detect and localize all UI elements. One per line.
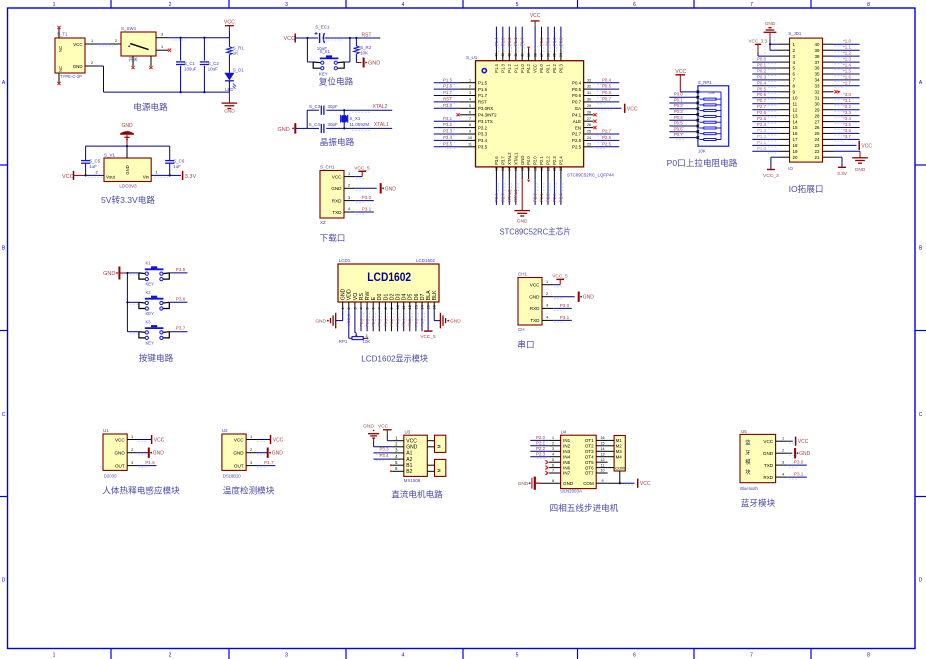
svg-text:36: 36 <box>814 66 820 71</box>
svg-text:VCC_5: VCC_5 <box>354 165 370 171</box>
svg-text:S_K1: S_K1 <box>320 49 331 54</box>
svg-text:29: 29 <box>587 104 591 108</box>
svg-text:P0.7: P0.7 <box>572 100 582 105</box>
svg-text:RP1: RP1 <box>339 339 348 344</box>
svg-text:VCC: VCC <box>273 438 284 444</box>
svg-text:28: 28 <box>814 113 820 118</box>
svg-text:D: D <box>919 578 923 584</box>
svg-text:14: 14 <box>508 167 512 171</box>
svg-text:牙: 牙 <box>745 449 751 456</box>
svg-text:IN2: IN2 <box>563 444 571 449</box>
svg-text:P0.6: P0.6 <box>414 319 418 327</box>
svg-text:下载口: 下载口 <box>320 232 346 243</box>
svg-text:P0.4: P0.4 <box>674 115 684 120</box>
svg-text:Vin: Vin <box>143 175 150 180</box>
svg-text:P0.3: P0.3 <box>757 74 767 79</box>
svg-text:19: 19 <box>540 167 544 171</box>
svg-text:P2.7: P2.7 <box>602 129 612 134</box>
svg-text:P2.1: P2.1 <box>536 441 546 446</box>
svg-text:RS: RS <box>359 292 365 300</box>
svg-text:P0.4: P0.4 <box>602 77 612 82</box>
svg-text:P0.2: P0.2 <box>674 103 684 108</box>
svg-text:GND: GND <box>331 186 342 191</box>
svg-text:2: 2 <box>91 61 93 65</box>
svg-text:VCC: VCC <box>675 69 686 75</box>
svg-text:B2: B2 <box>406 469 412 475</box>
svg-text:12: 12 <box>408 305 412 309</box>
svg-text:VCC_3: VCC_3 <box>763 173 779 179</box>
svg-text:*1.7: *1.7 <box>843 80 851 85</box>
svg-text:S_V1: S_V1 <box>104 153 116 158</box>
svg-text:M: M <box>436 468 441 472</box>
svg-text:21: 21 <box>553 167 557 171</box>
svg-text:P2.5: P2.5 <box>366 319 370 327</box>
svg-text:P0.2: P0.2 <box>552 64 557 73</box>
svg-text:COM: COM <box>583 481 594 486</box>
svg-text:3: 3 <box>546 304 548 308</box>
svg-text:P2.6: P2.6 <box>757 110 767 115</box>
svg-text:M4: M4 <box>616 454 623 459</box>
svg-text:3: 3 <box>782 460 784 464</box>
svg-text:GND: GND <box>406 445 418 451</box>
svg-text:3: 3 <box>285 2 288 8</box>
svg-text:复位电路: 复位电路 <box>319 76 354 87</box>
svg-text:GND: GND <box>125 165 130 174</box>
svg-text:S_JD1: S_JD1 <box>788 31 802 36</box>
svg-text:GND: GND <box>233 451 244 456</box>
svg-text:P2.0: P2.0 <box>536 435 546 440</box>
svg-text:1: 1 <box>91 39 93 43</box>
svg-text:P2.7: P2.7 <box>572 132 582 137</box>
svg-text:P4.2: P4.2 <box>526 64 531 73</box>
svg-text:GND: GND <box>450 319 461 325</box>
svg-text:GND: GND <box>73 64 83 69</box>
svg-text:16: 16 <box>793 131 799 136</box>
svg-text:4: 4 <box>348 207 350 211</box>
svg-text:*3.6: *3.6 <box>843 128 851 133</box>
svg-text:S_R2: S_R2 <box>360 45 372 50</box>
svg-text:STC89C52RC主芯片: STC89C52RC主芯片 <box>500 226 572 237</box>
svg-text:*1.2: *1.2 <box>843 51 851 56</box>
svg-text:26: 26 <box>587 123 591 127</box>
svg-text:模: 模 <box>745 458 751 466</box>
svg-text:VCC: VCC <box>530 283 540 288</box>
svg-text:S_C2: S_C2 <box>208 61 220 66</box>
svg-text:11: 11 <box>601 463 605 467</box>
svg-text:P2.6: P2.6 <box>602 135 612 140</box>
svg-text:P2.7: P2.7 <box>372 319 376 327</box>
svg-text:P0口上拉电阻电路: P0口上拉电阻电路 <box>667 157 738 168</box>
svg-text:P0.1: P0.1 <box>674 98 684 103</box>
svg-text:GND: GND <box>363 424 374 430</box>
svg-text:4: 4 <box>782 472 784 476</box>
svg-text:1: 1 <box>53 2 56 8</box>
svg-text:VCC_3.3: VCC_3.3 <box>748 38 767 43</box>
svg-text:P1.7: P1.7 <box>443 90 453 95</box>
svg-text:GND: GND <box>563 481 574 486</box>
svg-text:GND: GND <box>583 295 595 301</box>
svg-text:VCC: VCC <box>234 437 244 442</box>
svg-text:3: 3 <box>469 91 471 95</box>
svg-text:5V转3.3V电路: 5V转3.3V电路 <box>101 194 155 205</box>
svg-text:VCC_5: VCC_5 <box>420 334 436 340</box>
svg-text:11: 11 <box>468 142 472 146</box>
svg-text:13: 13 <box>601 452 605 456</box>
svg-text:OUT: OUT <box>234 463 244 468</box>
svg-text:*1.5: *1.5 <box>843 69 851 74</box>
svg-text:XTAL2: XTAL2 <box>507 152 512 165</box>
svg-text:25: 25 <box>814 131 820 136</box>
svg-text:4: 4 <box>552 452 554 456</box>
svg-text:P3.2: P3.2 <box>478 125 488 130</box>
svg-text:P3.0: P3.0 <box>560 303 570 308</box>
svg-text:P2.2: P2.2 <box>536 446 546 451</box>
svg-text:S_R1: S_R1 <box>233 45 245 50</box>
svg-text:*1.6: *1.6 <box>843 74 851 79</box>
svg-text:8: 8 <box>867 2 870 8</box>
svg-text:KEY: KEY <box>146 311 155 316</box>
svg-text:蓝牙模块: 蓝牙模块 <box>741 497 776 508</box>
svg-text:IO拓展口: IO拓展口 <box>789 183 824 194</box>
svg-text:33: 33 <box>587 78 591 82</box>
svg-text:P3.3: P3.3 <box>380 447 390 452</box>
svg-text:6: 6 <box>633 2 636 8</box>
svg-text:P0.0: P0.0 <box>674 92 684 97</box>
svg-text:31: 31 <box>814 96 820 101</box>
svg-text:KEY: KEY <box>146 340 155 345</box>
svg-text:VO: VO <box>353 293 359 301</box>
svg-text:P0.1: P0.1 <box>384 319 388 327</box>
svg-text:P0.7: P0.7 <box>757 98 767 103</box>
svg-text:12: 12 <box>793 107 799 112</box>
svg-text:2: 2 <box>552 442 554 446</box>
svg-text:13: 13 <box>414 305 418 309</box>
svg-text:TXD: TXD <box>530 318 540 323</box>
svg-text:P0.2: P0.2 <box>390 319 394 327</box>
svg-text:3: 3 <box>285 653 288 659</box>
svg-text:31: 31 <box>587 91 591 95</box>
svg-text:P3.1: P3.1 <box>443 116 453 121</box>
svg-text:GND: GND <box>763 451 774 456</box>
svg-text:S_CH1: S_CH1 <box>320 165 335 170</box>
svg-text:IN4: IN4 <box>563 454 571 459</box>
svg-text:P1.5: P1.5 <box>478 80 488 85</box>
svg-text:GND: GND <box>368 61 380 67</box>
svg-text:23: 23 <box>814 143 820 148</box>
svg-text:P2.3: P2.3 <box>552 193 557 202</box>
svg-text:LCD1602: LCD1602 <box>367 272 411 284</box>
svg-text:*3.0: *3.0 <box>843 92 851 97</box>
svg-text:P0.5: P0.5 <box>674 121 684 126</box>
svg-text:5: 5 <box>516 653 519 659</box>
svg-text:LCD1602显示模块: LCD1602显示模块 <box>361 353 428 364</box>
svg-text:7: 7 <box>750 653 753 659</box>
svg-text:S_RP1: S_RP1 <box>698 80 712 85</box>
svg-text:P2.3: P2.3 <box>536 451 546 456</box>
svg-text:P0.7: P0.7 <box>420 319 424 327</box>
svg-text:A2: A2 <box>406 457 412 463</box>
svg-text:37: 37 <box>814 60 820 65</box>
svg-text:1: 1 <box>552 436 554 440</box>
svg-text:CH1: CH1 <box>518 272 527 277</box>
svg-text:*1.3: *1.3 <box>843 57 851 62</box>
svg-text:VCC: VCC <box>763 439 773 444</box>
svg-text:16: 16 <box>601 436 605 440</box>
svg-text:3: 3 <box>348 196 350 200</box>
svg-text:STC89C52RC_LQFP44: STC89C52RC_LQFP44 <box>567 173 614 178</box>
svg-text:P4.1: P4.1 <box>572 113 582 118</box>
svg-text:VCC: VCC <box>640 481 651 487</box>
svg-text:OT5: OT5 <box>585 460 594 465</box>
svg-text:1: 1 <box>161 45 163 49</box>
svg-text:串口: 串口 <box>517 340 534 350</box>
svg-text:30: 30 <box>814 101 820 106</box>
svg-text:26: 26 <box>814 125 820 130</box>
svg-text:P3.6: P3.6 <box>494 193 499 202</box>
svg-text:U5: U5 <box>741 429 747 434</box>
svg-text:*3.5: *3.5 <box>843 122 851 127</box>
svg-text:P3.7: P3.7 <box>500 193 505 202</box>
svg-text:GND: GND <box>103 271 115 277</box>
svg-text:1uF: 1uF <box>89 164 97 169</box>
svg-text:P2.6: P2.6 <box>359 319 363 327</box>
svg-text:P2.6: P2.6 <box>572 138 582 143</box>
svg-text:3: 3 <box>161 33 163 37</box>
svg-text:VCC: VCC <box>224 19 235 25</box>
svg-text:2: 2 <box>546 292 548 296</box>
svg-text:M2: M2 <box>616 444 623 449</box>
svg-text:P1.7: P1.7 <box>478 93 488 98</box>
svg-text:16: 16 <box>433 305 437 309</box>
svg-text:EA: EA <box>575 106 581 111</box>
svg-text:K3: K3 <box>146 319 152 324</box>
svg-text:32: 32 <box>814 90 820 95</box>
svg-text:M3: M3 <box>616 449 623 454</box>
svg-text:P0.6: P0.6 <box>602 90 612 95</box>
svg-text:12: 12 <box>495 167 499 171</box>
svg-text:块: 块 <box>745 468 751 476</box>
svg-text:P3.0RX: P3.0RX <box>478 106 493 111</box>
svg-text:VCC: VCC <box>533 64 538 73</box>
svg-text:GND: GND <box>341 288 347 300</box>
svg-text:M1: M1 <box>616 438 623 443</box>
svg-text:XZ: XZ <box>320 220 326 225</box>
svg-text:10K: 10K <box>363 339 371 344</box>
svg-text:3.3V: 3.3V <box>837 171 848 177</box>
svg-text:S_C1: S_C1 <box>184 61 196 66</box>
svg-text:D4: D4 <box>402 293 408 300</box>
svg-text:*3.1: *3.1 <box>843 98 851 103</box>
svg-text:3: 3 <box>131 461 133 465</box>
svg-text:30pF: 30pF <box>328 104 339 109</box>
svg-text:COM: COM <box>615 465 624 470</box>
svg-text:ULN2003A: ULN2003A <box>560 489 582 494</box>
svg-text:VCC: VCC <box>861 143 872 149</box>
svg-text:GND: GND <box>272 451 284 457</box>
svg-text:P0.3: P0.3 <box>559 64 564 73</box>
svg-text:P1.2: P1.2 <box>507 64 512 73</box>
svg-text:OT4: OT4 <box>585 454 594 459</box>
svg-text:电源电路: 电源电路 <box>133 101 168 112</box>
svg-text:GND: GND <box>114 451 125 456</box>
svg-text:10: 10 <box>396 305 400 309</box>
svg-text:GND: GND <box>224 109 235 115</box>
svg-text:15: 15 <box>427 305 431 309</box>
svg-text:CH: CH <box>518 327 525 332</box>
svg-text:3.3V: 3.3V <box>185 174 197 180</box>
svg-text:P3.6: P3.6 <box>494 156 499 165</box>
svg-text:12: 12 <box>601 458 605 462</box>
svg-text:9: 9 <box>469 130 471 134</box>
svg-text:GND: GND <box>315 319 326 325</box>
svg-text:P3.5: P3.5 <box>176 267 186 272</box>
svg-text:5: 5 <box>552 458 554 462</box>
svg-text:4: 4 <box>402 653 405 659</box>
svg-text:P4.0: P4.0 <box>526 156 531 165</box>
svg-text:P0.5: P0.5 <box>572 87 582 92</box>
svg-text:10: 10 <box>601 469 605 473</box>
svg-text:P3.1TX: P3.1TX <box>478 119 493 124</box>
svg-text:B1: B1 <box>406 463 412 469</box>
svg-text:5: 5 <box>516 2 519 8</box>
svg-text:11: 11 <box>402 306 406 310</box>
svg-text:P1.2: P1.2 <box>757 134 767 139</box>
svg-text:XTAL2: XTAL2 <box>373 104 388 110</box>
svg-text:7: 7 <box>378 307 382 309</box>
svg-text:RW: RW <box>365 292 371 301</box>
svg-text:*3.2: *3.2 <box>843 104 851 109</box>
svg-text:P3.1: P3.1 <box>560 315 570 320</box>
svg-text:18: 18 <box>533 167 537 171</box>
svg-text:P0.0: P0.0 <box>539 64 544 73</box>
svg-text:20: 20 <box>546 167 550 171</box>
svg-text:P0.6: P0.6 <box>674 126 684 131</box>
svg-text:P0.0: P0.0 <box>378 319 382 327</box>
svg-text:VCC: VCC <box>378 424 389 430</box>
svg-text:P2.2: P2.2 <box>546 156 551 165</box>
svg-text:15: 15 <box>793 125 799 130</box>
svg-text:C: C <box>919 412 923 418</box>
svg-text:S_D1: S_D1 <box>233 68 245 73</box>
svg-text:P0.4: P0.4 <box>757 80 767 85</box>
svg-text:S_C6: S_C6 <box>173 158 185 163</box>
svg-text:22: 22 <box>814 149 820 154</box>
svg-text:D0: D0 <box>377 293 383 300</box>
svg-text:2: 2 <box>469 85 471 89</box>
svg-text:S_SW1: S_SW1 <box>121 26 137 31</box>
svg-text:晶振电路: 晶振电路 <box>320 136 355 147</box>
svg-text:IN1: IN1 <box>563 438 571 443</box>
svg-text:P3.4: P3.4 <box>443 135 453 140</box>
svg-text:17: 17 <box>793 137 799 142</box>
svg-text:34: 34 <box>814 78 820 83</box>
svg-text:14: 14 <box>793 119 799 124</box>
svg-text:P2.5: P2.5 <box>572 145 582 150</box>
svg-text:IO: IO <box>788 166 793 171</box>
svg-text:P0.3: P0.3 <box>674 109 684 114</box>
svg-text:RST: RST <box>362 32 372 38</box>
svg-text:GND: GND <box>518 481 529 487</box>
svg-text:P2.3: P2.3 <box>552 156 557 165</box>
svg-text:41: 41 <box>514 53 518 57</box>
svg-text:P0.4: P0.4 <box>402 319 406 327</box>
svg-text:10: 10 <box>793 96 799 101</box>
svg-text:DS18B20: DS18B20 <box>223 473 242 478</box>
svg-text:P3.7: P3.7 <box>500 156 505 165</box>
svg-text:13: 13 <box>501 167 505 171</box>
svg-text:VDD: VDD <box>347 289 353 300</box>
svg-text:OT7: OT7 <box>585 471 594 476</box>
svg-text:8: 8 <box>469 123 471 127</box>
svg-text:P3.3: P3.3 <box>478 132 488 137</box>
svg-text:16: 16 <box>521 167 525 171</box>
svg-text:S_C3: S_C3 <box>309 104 321 109</box>
svg-text:RXD: RXD <box>763 475 773 480</box>
svg-text:21: 21 <box>814 155 820 160</box>
svg-text:直流电机电路: 直流电机电路 <box>391 489 443 500</box>
svg-text:P0.6: P0.6 <box>757 92 767 97</box>
svg-text:*1.4: *1.4 <box>843 63 851 68</box>
svg-text:1: 1 <box>341 307 345 309</box>
svg-text:P0.0: P0.0 <box>757 57 767 62</box>
svg-text:P2.7: P2.7 <box>757 104 767 109</box>
svg-text:VCC_5: VCC_5 <box>347 314 351 326</box>
svg-text:28: 28 <box>587 110 591 114</box>
svg-text:9: 9 <box>390 307 394 309</box>
svg-text:GND: GND <box>385 186 397 192</box>
svg-text:OT6: OT6 <box>585 465 594 470</box>
svg-text:P2.0: P2.0 <box>533 156 538 165</box>
svg-text:NC: NC <box>58 46 63 52</box>
svg-text:P2.1: P2.1 <box>539 193 544 202</box>
svg-text:GND: GND <box>765 21 776 27</box>
svg-text:24: 24 <box>814 137 820 142</box>
svg-text:P1.0: P1.0 <box>520 64 525 73</box>
svg-text:P3.3: P3.3 <box>443 129 453 134</box>
svg-text:3: 3 <box>552 447 554 451</box>
svg-text:38: 38 <box>814 54 820 59</box>
svg-text:D2: D2 <box>389 293 395 300</box>
svg-text:LCD1: LCD1 <box>339 258 351 263</box>
svg-text:27: 27 <box>814 119 820 124</box>
svg-text:XTAL1: XTAL1 <box>513 152 518 165</box>
svg-text:10K: 10K <box>698 149 706 154</box>
svg-text:GND: GND <box>278 127 290 133</box>
svg-text:4: 4 <box>469 98 471 102</box>
svg-text:P4.3INT2: P4.3INT2 <box>478 113 497 118</box>
svg-text:VCC: VCC <box>115 437 125 442</box>
svg-text:S_X1: S_X1 <box>349 116 361 121</box>
svg-text:GND: GND <box>517 219 528 225</box>
svg-text:2: 2 <box>782 448 784 452</box>
svg-text:GND: GND <box>855 167 866 173</box>
svg-text:按键电路: 按键电路 <box>139 352 174 363</box>
svg-text:100uF: 100uF <box>184 67 197 72</box>
svg-text:38: 38 <box>533 53 537 57</box>
svg-text:P3.2: P3.2 <box>443 122 453 127</box>
svg-text:1: 1 <box>250 435 252 439</box>
svg-text:M: M <box>436 444 441 448</box>
svg-text:LCD1602: LCD1602 <box>416 258 436 263</box>
svg-text:RST: RST <box>443 97 452 102</box>
svg-text:四相五线步进电机: 四相五线步进电机 <box>550 502 619 513</box>
svg-text:P0.5: P0.5 <box>757 86 767 91</box>
svg-text:C: C <box>2 412 6 418</box>
svg-text:P0.1: P0.1 <box>546 64 551 73</box>
svg-text:P3.4: P3.4 <box>380 453 390 458</box>
svg-text:1: 1 <box>131 435 133 439</box>
svg-text:4: 4 <box>402 2 405 8</box>
